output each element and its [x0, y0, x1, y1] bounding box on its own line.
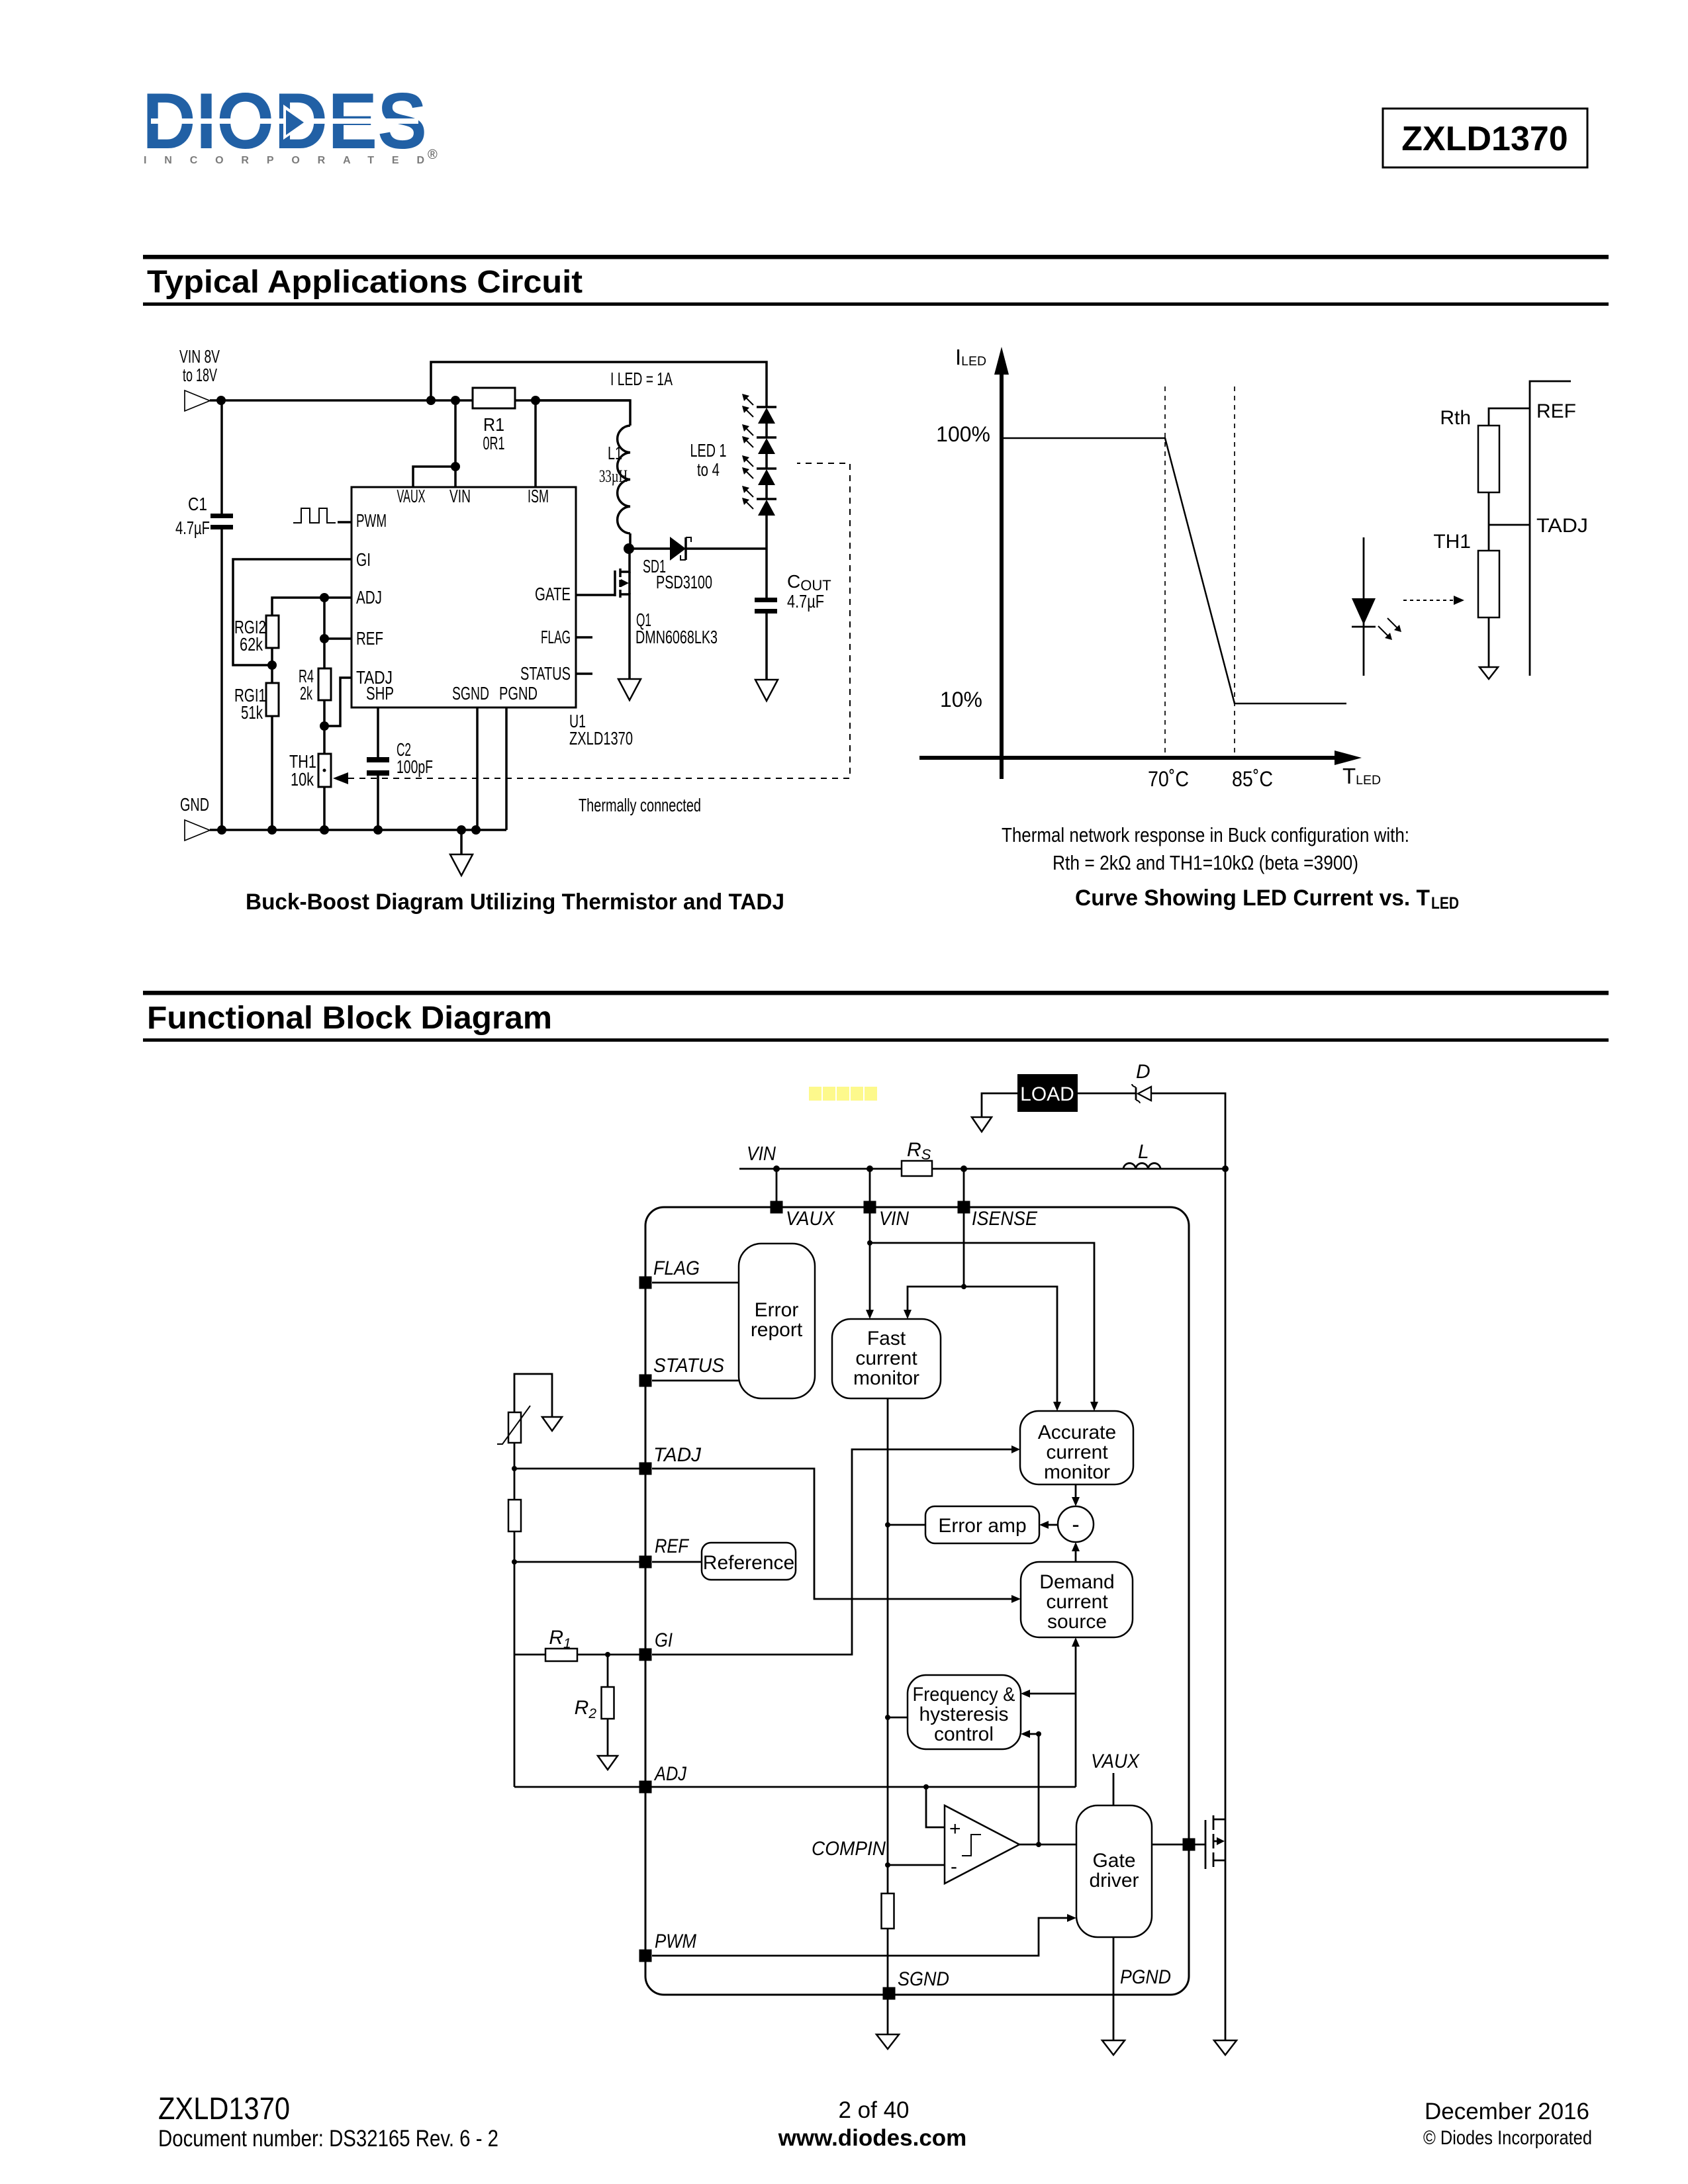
wire D to bus [1151, 1093, 1225, 1169]
wire ISENSE drop [963, 1169, 965, 1201]
svg-text:100%: 100% [936, 422, 990, 446]
svg-text:driver: driver [1089, 1870, 1139, 1891]
svg-text:current: current [1046, 1591, 1108, 1613]
svg-text:monitor: monitor [853, 1367, 919, 1389]
svg-text:REF: REF [356, 628, 383, 649]
inductor L1 33uH [599, 426, 630, 533]
svg-text:-: - [951, 1856, 957, 1878]
svg-text:10%: 10% [940, 688, 982, 711]
svg-text:control: control [934, 1723, 994, 1745]
ground thermal network [1479, 667, 1498, 679]
svg-text:DMN6068LK3: DMN6068LK3 [635, 627, 718, 647]
wire thermistor to TADJ [514, 1443, 516, 1500]
node LOAD [1017, 1074, 1078, 1112]
ground LOAD [972, 1117, 992, 1132]
wire ADJ to comparator plus [926, 1787, 945, 1827]
ground COUT [755, 680, 778, 701]
node junction VIN rail [867, 1165, 873, 1172]
node Demand current source block [1021, 1562, 1133, 1637]
wire comparator output [1019, 1844, 1076, 1846]
svg-text:December 2016: December 2016 [1425, 2099, 1589, 2124]
svg-text:Reference: Reference [703, 1552, 794, 1574]
svg-text:VIN 8V: VIN 8V [179, 346, 220, 367]
node junction VAUX rail [773, 1165, 780, 1172]
svg-text:0R1: 0R1 [483, 433, 505, 453]
svg-text:L1: L1 [608, 443, 622, 463]
svg-text:10k: 10k [291, 769, 314, 790]
wire thermal network bus [1530, 381, 1571, 676]
wire ISM pin [534, 400, 537, 487]
svg-text:100pF: 100pF [397, 756, 433, 777]
svg-text:PGND: PGND [499, 683, 538, 704]
transistor output MOSFET [1205, 1815, 1225, 1869]
wire LED2-LED3 [765, 454, 768, 469]
node junction SGND-GND [471, 825, 481, 835]
svg-text:TADJ: TADJ [1536, 515, 1588, 537]
pin ADJ square [639, 1781, 652, 1794]
resistor RS [902, 1139, 932, 1176]
thermistor TH1 [1433, 531, 1499, 617]
svg-text:source: source [1047, 1611, 1107, 1633]
wire thermistor top [514, 1374, 552, 1417]
svg-text:PWM: PWM [356, 510, 387, 531]
wire ADJ-REF chain [323, 598, 326, 668]
wire VIN rail [210, 399, 630, 402]
wire inductor to SD1 node [629, 533, 632, 549]
svg-text:ZXLD1370: ZXLD1370 [1401, 120, 1568, 158]
LED D3 [742, 455, 776, 485]
node junction bus rail [1222, 1165, 1229, 1172]
wire REF external [514, 1561, 639, 1563]
svg-text:D: D [1136, 1061, 1150, 1083]
wire REF [324, 637, 352, 640]
wire summing to error amp [1039, 1521, 1058, 1529]
node summing junction [1058, 1506, 1094, 1542]
svg-text:4.7µF: 4.7µF [787, 591, 824, 612]
node junction RGI1-GND [267, 825, 277, 835]
wire ADJ branch to frequency [1021, 1690, 1076, 1698]
pin GATE square [1183, 1839, 1196, 1851]
wire accurate to summing [1072, 1484, 1080, 1506]
wire top loop to LED string [431, 362, 767, 408]
resistor COMPIN divider [882, 1893, 894, 1929]
svg-text:ISENSE: ISENSE [972, 1208, 1038, 1230]
svg-text:Thermally connected: Thermally connected [579, 795, 701, 815]
svg-text:hysteresis: hysteresis [919, 1704, 1008, 1725]
svg-text:PWM: PWM [655, 1931, 696, 1952]
svg-text:I LED = 1A: I LED = 1A [610, 369, 673, 389]
capacitor C2 100pF [367, 707, 433, 830]
op-amp U1 ZXLD1370 IC body [352, 486, 576, 707]
svg-text:R1: R1 [483, 414, 504, 435]
wire bus down to MOSFET drain [1225, 1169, 1227, 1819]
svg-text:Fast: Fast [867, 1328, 906, 1349]
svg-text:SGND: SGND [898, 1968, 949, 1990]
wire error amp input tap [888, 1524, 925, 1526]
pin GI square [639, 1649, 652, 1661]
node junction L1-SD1-Q1 [624, 543, 634, 554]
svg-text:ISM: ISM [528, 486, 549, 506]
node Error report block [739, 1244, 815, 1398]
wire RGI1 to GND [271, 716, 273, 830]
wire fast monitor output [887, 1398, 889, 1893]
svg-text:Gate: Gate [1092, 1850, 1135, 1872]
svg-text:Frequency &: Frequency & [913, 1684, 1015, 1706]
svg-text:2 of 40: 2 of 40 [838, 2097, 909, 2123]
node junction R2 [605, 1652, 610, 1657]
svg-text:GI: GI [356, 549, 371, 570]
svg-text:ADJ: ADJ [356, 587, 382, 608]
wire SGND to ground [887, 1999, 889, 2034]
wire VIN drop [869, 1169, 871, 1201]
svg-text:FLAG: FLAG [653, 1257, 700, 1279]
wire VAUX pin [413, 467, 455, 487]
wire LOAD left [982, 1093, 1017, 1117]
wire REF to reference block [652, 1561, 702, 1563]
svg-text:+: + [949, 1818, 961, 1840]
node junction output-frequency corner [1036, 1731, 1041, 1737]
svg-text:report: report [751, 1319, 803, 1341]
svg-text:SGND: SGND [452, 683, 489, 704]
svg-text:GND: GND [180, 794, 209, 815]
wire PWM stub [338, 521, 352, 523]
svg-text:2k: 2k [300, 683, 313, 704]
node Fast current monitor block [832, 1319, 941, 1398]
node junction GNDSYM [457, 825, 466, 835]
svg-text:LED: LED [1431, 894, 1459, 913]
wire VIN internal [866, 1213, 874, 1319]
svg-text:PGND: PGND [1120, 1966, 1171, 1988]
wire thermally connected dashed [333, 463, 850, 815]
svg-text:to 18V: to 18V [183, 365, 217, 385]
wire VIN pin [454, 400, 457, 487]
wire R4 to TH1 [323, 700, 326, 754]
wire dotted thermal coupling arrow [1403, 596, 1464, 605]
resistor R1 0R1 [473, 388, 515, 453]
svg-text:STATUS: STATUS [653, 1355, 724, 1377]
wire ISENSE to accurate monitor [964, 1287, 1061, 1411]
resistor RGI1 51k [234, 683, 279, 723]
wire output to frequency [1021, 1730, 1039, 1844]
svg-text:GATE: GATE [535, 584, 571, 604]
resistor R4 2k [299, 666, 331, 704]
svg-text:VAUX: VAUX [786, 1208, 835, 1230]
svg-text:STATUS: STATUS [520, 663, 571, 684]
svg-text:VIN: VIN [747, 1143, 776, 1165]
svg-text:TADJ: TADJ [653, 1444, 702, 1466]
diode D [1132, 1061, 1151, 1103]
wire GI to accurate monitor [652, 1445, 1020, 1655]
svg-text:-: - [1072, 1512, 1079, 1537]
diode SD1 PSD3100 [629, 537, 767, 592]
wire Rth top [1489, 408, 1530, 426]
wire gate driver to PGND [1113, 1937, 1115, 2040]
pin FLAG square [639, 1277, 652, 1289]
node junction ADJ-R4 [320, 593, 329, 602]
node junction comparator output [1036, 1842, 1041, 1847]
svg-text:SHP: SHP [366, 683, 394, 704]
svg-text:LED 1: LED 1 [690, 440, 727, 461]
op-amp IC boundary block diagram [645, 1207, 1189, 1995]
svg-text:®: ® [428, 148, 438, 162]
LED temperature sensor [1352, 537, 1401, 676]
capacitor C1 4.7uF [175, 400, 233, 830]
pin STATUS stub [576, 672, 592, 675]
node junction VIN internal [867, 1240, 872, 1246]
node junction TADJ-TH1 [320, 721, 329, 731]
pin REF square [639, 1556, 652, 1569]
svg-text:Thermal network response in Bu: Thermal network response in Buck configu… [1002, 823, 1409, 846]
wire LOAD right [1078, 1093, 1136, 1095]
svg-text:current: current [855, 1347, 917, 1369]
node VIN input [179, 346, 220, 411]
svg-text:COMPIN: COMPIN [812, 1838, 886, 1860]
wire PWM to gate driver [652, 1914, 1076, 1956]
svg-text:C1: C1 [188, 494, 207, 514]
node junction ADJ comparator [923, 1784, 929, 1790]
wire LED1-LED2 [765, 424, 768, 437]
wire VIN to accurate monitor [870, 1243, 1098, 1411]
svg-text:33µH: 33µH [599, 467, 628, 486]
svg-text:70˚C: 70˚C [1148, 767, 1189, 791]
node Error amp block [925, 1506, 1039, 1543]
node junction frequency tap [885, 1715, 890, 1720]
node Gate driver block [1076, 1805, 1152, 1937]
svg-text:ZXLD1370: ZXLD1370 [158, 2091, 290, 2126]
wire frequency block left tap [888, 1717, 908, 1719]
node Frequency hysteresis control block [908, 1675, 1021, 1749]
wire R1 right to GI square [577, 1654, 639, 1656]
wire TH1 to GND [323, 787, 326, 830]
node junction error amp tap [885, 1522, 890, 1527]
svg-text:LOAD: LOAD [1020, 1083, 1074, 1105]
node junction C1-GND [217, 825, 226, 835]
node junction ISENSE internal [961, 1284, 966, 1289]
wire ISENSE internal [963, 1213, 965, 1287]
svg-text:4.7µF: 4.7µF [175, 518, 210, 538]
node junction TADJ external [512, 1466, 517, 1471]
LED D1 [742, 394, 776, 424]
wire comparator minus input [888, 1864, 945, 1866]
capacitor COUT 4.7uF [755, 571, 831, 680]
PWM input waveform [293, 508, 336, 523]
node Accurate current monitor block [1020, 1411, 1133, 1484]
resistor external divider [508, 1500, 521, 1531]
node junction C2-GND [373, 825, 383, 835]
op-amp comparator [945, 1805, 1019, 1884]
svg-text:ZXLD1370: ZXLD1370 [569, 728, 633, 749]
svg-text:monitor: monitor [1044, 1461, 1110, 1483]
graph ILED vs TLED [919, 345, 1381, 791]
ground main rail [450, 830, 473, 876]
svg-text:PSD3100: PSD3100 [656, 572, 712, 592]
wire SGND pin [476, 707, 479, 830]
wire ADJ up to demand [1072, 1637, 1080, 1787]
svg-text:TH1: TH1 [1433, 531, 1471, 553]
node junction ISM [531, 396, 540, 405]
pin SGND square [883, 1987, 896, 2000]
node junction REF external [512, 1559, 517, 1565]
wire FLAG to error report [652, 1282, 739, 1284]
ground MOSFET [1214, 2040, 1237, 2055]
pin VIN square [864, 1201, 876, 1214]
svg-text:ADJ: ADJ [653, 1763, 687, 1785]
ground Q1 source [618, 679, 641, 700]
svg-text:current: current [1046, 1441, 1108, 1463]
wire ADJ net [514, 1786, 1076, 1788]
wire RGI2 to RGI1 [271, 648, 273, 683]
ground PGND [1102, 2040, 1125, 2055]
label LED 1 to 4 [690, 440, 727, 480]
wire TADJ to demand source [652, 1469, 1021, 1603]
wire TADJ stub [1489, 524, 1530, 526]
node junction GI-RGI [267, 660, 277, 670]
ground thermistor [542, 1417, 562, 1431]
svg-text:62k: 62k [240, 634, 263, 655]
svg-text:Error amp: Error amp [938, 1515, 1026, 1537]
svg-text:VAUX: VAUX [1091, 1751, 1140, 1772]
wire divider to REF [514, 1531, 516, 1787]
wire PGND pin [505, 707, 508, 830]
svg-text:Error: Error [755, 1299, 799, 1321]
svg-text:Buck-Boost Diagram Utilizing T: Buck-Boost Diagram Utilizing Thermistor … [246, 889, 784, 915]
resistor R1 block [545, 1627, 577, 1661]
inductor L block [1123, 1141, 1160, 1169]
svg-text:Document number: DS32165 Rev.: Document number: DS32165 Rev. 6 - 2 [158, 2126, 498, 2152]
pin VAUX square [771, 1201, 783, 1214]
svg-text:85˚C: 85˚C [1232, 767, 1273, 791]
svg-text:REF: REF [1536, 400, 1576, 422]
resistor RGI2 62k [234, 615, 279, 655]
wire VIN rail block [739, 1168, 1225, 1170]
wire R1 to inductor [536, 400, 630, 426]
wire TADJ [324, 678, 352, 726]
wire ADJ [272, 598, 352, 615]
pin FLAG stub [576, 636, 592, 639]
svg-text:Demand: Demand [1039, 1571, 1114, 1593]
wire STATUS to error report [652, 1380, 739, 1382]
svg-text:Rth: Rth [1440, 407, 1471, 429]
ground R2 [598, 1756, 618, 1770]
ground SGND [876, 2034, 899, 2049]
svg-text:51k: 51k [241, 702, 263, 723]
svg-text:VIN: VIN [449, 486, 471, 506]
wire TADJ external [514, 1468, 639, 1470]
node junction VIN-pin [451, 396, 460, 405]
LED D4 [742, 486, 776, 516]
svg-text:L: L [1138, 1141, 1149, 1163]
wire Rth-TH1 [1488, 492, 1490, 551]
wire COMPIN resistor to SGND [887, 1929, 889, 1987]
LED D2 [742, 424, 776, 454]
wire VAUX drop [776, 1169, 778, 1201]
wire ISENSE to fast monitor [904, 1287, 964, 1319]
svg-text:VIN: VIN [879, 1208, 909, 1230]
thermistor TH1 10k [289, 751, 331, 790]
svg-text:Rth = 2kΩ and TH1=10kΩ (beta: Rth = 2kΩ and TH1=10kΩ (beta =3900) [1053, 851, 1358, 874]
pin ISENSE square [958, 1201, 970, 1214]
node junction VIN-top [426, 396, 436, 405]
wire LED3-LED4 [765, 485, 768, 499]
svg-text:© Diodes Incorporated: © Diodes Incorporated [1423, 2127, 1592, 2149]
pin TADJ square [639, 1463, 652, 1475]
svg-text:FLAG: FLAG [541, 627, 571, 647]
svg-text:Curve Showing LED Current vs.: Curve Showing LED Current vs. T [1075, 886, 1430, 911]
svg-text:VAUX: VAUX [397, 486, 426, 506]
svg-text:www.diodes.com: www.diodes.com [778, 2125, 967, 2151]
pin STATUS square [639, 1375, 652, 1387]
svg-text:Functional Block Diagram: Functional Block Diagram [147, 1001, 552, 1036]
wire GND rail [210, 829, 506, 831]
label thermal response [1002, 823, 1409, 874]
svg-text:Typical Applications Circuit: Typical Applications Circuit [147, 265, 583, 300]
thermistor external block [497, 1406, 530, 1444]
node Reference block [702, 1543, 796, 1580]
wire gate driver output [1152, 1844, 1205, 1846]
resistor Rth [1440, 407, 1499, 492]
svg-text:REF: REF [655, 1535, 689, 1557]
node junction C1-VIN [216, 396, 226, 405]
wire MOSFET source to ground [1225, 1860, 1227, 2040]
transistor Q1 DMN6068LK3 [576, 549, 718, 679]
node junction ISENSE rail [961, 1165, 967, 1172]
wire VAUX to gate driver [1113, 1773, 1115, 1805]
resistor R2 block [575, 1655, 614, 1721]
wire TH1 to ground [1488, 617, 1490, 667]
node junction COMPIN [885, 1862, 890, 1868]
pin PWM square [639, 1950, 652, 1962]
wire GI [233, 559, 352, 665]
node GND input [180, 794, 210, 841]
wire R1 to GI [514, 1654, 545, 1656]
wire LED4 to output node [765, 516, 768, 598]
node junction REF-R4 [320, 634, 329, 643]
node junction TH1-GND [320, 825, 329, 835]
wire R2 to ground [607, 1719, 609, 1756]
node junction VAUX-VIN [451, 462, 460, 471]
svg-text:Accurate: Accurate [1038, 1422, 1116, 1443]
svg-text:to 4: to 4 [697, 459, 720, 480]
label U1 designator [569, 711, 633, 749]
svg-text:GI: GI [655, 1629, 673, 1651]
wire demand to summing [1072, 1542, 1080, 1562]
